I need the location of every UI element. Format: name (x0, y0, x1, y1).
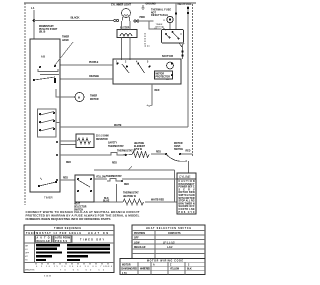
svg-text:RED: RED (112, 163, 117, 165)
svg-text:HEATING W: HEATING W (123, 195, 137, 198)
svg-text:BLK: BLK (104, 198, 109, 200)
svg-text:WHITE: WHITE (114, 125, 122, 127)
svg-text:RED: RED (66, 162, 71, 164)
svg-text:POWER BEF C: POWER BEF C (179, 187, 195, 189)
svg-text:HEAT SELECTION SWITCH: HEAT SELECTION SWITCH (146, 227, 191, 230)
svg-text:MOTOR: MOTOR (122, 264, 131, 266)
svg-text:CAUTION: CAUTION (179, 180, 195, 183)
svg-text:CYLINE: CYLINE (179, 175, 191, 179)
svg-text:CONTR LNE: CONTR LNE (179, 209, 195, 211)
svg-text:YELLOW: YELLOW (96, 177, 107, 179)
svg-text:RED: RED (186, 151, 191, 153)
svg-text:PRESS: PRESS (55, 241, 67, 243)
svg-text:TIMER SEQUENCE: TIMER SEQUENCE (54, 228, 81, 230)
svg-text:REGULAR: REGULAR (134, 246, 146, 249)
svg-text:SWITCH: SWITCH (174, 149, 183, 151)
svg-text:THERMOSTAT: THERMOSTAT (123, 192, 139, 195)
svg-text:NEUTRAL: NEUTRAL (178, 2, 192, 6)
svg-text:MOTOR: MOTOR (90, 99, 99, 101)
svg-text:RED: RED (155, 90, 160, 92)
svg-text:THERMAL FUSE: THERMAL FUSE (151, 9, 171, 12)
svg-text:M: M (78, 98, 80, 100)
svg-text:PINK: PINK (140, 17, 146, 19)
svg-text:L-1/2: L-1/2 (167, 247, 173, 249)
svg-text:TIMER: TIMER (90, 96, 97, 98)
svg-text:RED: RED (63, 178, 68, 180)
svg-text:LO: LO (25, 249, 28, 251)
svg-text:33 1-2 OHM: 33 1-2 OHM (96, 136, 109, 138)
svg-text:RED: RED (156, 152, 161, 154)
svg-text:PUSH TO START: PUSH TO START (39, 28, 58, 31)
svg-text:SHOWN OFF: SHOWN OFF (179, 206, 196, 208)
svg-text:MOTOR BRN: MOTOR BRN (179, 192, 195, 194)
svg-text:TIMER: TIMER (62, 37, 69, 39)
svg-text:RESETTABLE: RESETTABLE (151, 14, 168, 17)
svg-text:WHITE-RED: WHITE-RED (151, 200, 164, 202)
svg-text:WITH MOTOR: WITH MOTOR (179, 198, 195, 200)
svg-text:LOW: LOW (134, 242, 140, 244)
svg-text:CONTACTS: CONTACTS (168, 232, 181, 235)
svg-text:MOTOR: MOTOR (162, 54, 174, 58)
svg-text:MOTOR: MOTOR (174, 143, 183, 145)
svg-text:HAND: HAND (62, 39, 69, 42)
svg-text:MOMENTARY: MOMENTARY (39, 25, 54, 28)
svg-text:CHARGING RED: CHARGING RED (121, 268, 137, 271)
svg-text:PURPLE: PURPLE (89, 62, 99, 64)
svg-text:POSITION: POSITION (134, 233, 145, 235)
svg-text:SWITCH SHN: SWITCH SHN (179, 195, 195, 197)
svg-text:DISCONNECT: DISCONNECT (179, 184, 196, 186)
svg-text:HEAT: HEAT (74, 203, 81, 206)
svg-text:OFF: OFF (134, 238, 139, 240)
svg-text:RESISTOR: RESISTOR (96, 139, 108, 141)
svg-text:NUMBERS WHEN REQUESTING INFO O: NUMBERS WHEN REQUESTING INFO OR ORDERING… (26, 217, 111, 221)
svg-text:CYL INNER LIGHT: CYL INNER LIGHT (111, 5, 131, 7)
svg-text:SELECTOR: SELECTOR (74, 207, 87, 209)
svg-text:GROUND: GROUND (146, 4, 157, 6)
svg-text:RED: RED (124, 184, 129, 186)
svg-text:ORANGE: ORANGE (89, 75, 100, 78)
svg-text:TIMER: TIMER (44, 196, 53, 200)
svg-text:BRN TIMER N: BRN TIMER N (179, 203, 195, 205)
svg-text:THERMOSTAT: THERMOSTAT (106, 175, 122, 178)
svg-text:ELEMENT: ELEMENT (134, 146, 146, 148)
svg-text:POS CYC: POS CYC (179, 212, 195, 214)
svg-text:(BLU): (BLU) (39, 32, 45, 34)
svg-text:1M: 1M (166, 79, 169, 81)
svg-text:THERMOSTAT: THERMOSTAT (108, 145, 124, 148)
svg-text:MINUTES: MINUTES (25, 269, 35, 271)
svg-text:A B: A B (41, 56, 45, 59)
svg-text:1 73: 1 73 (122, 273, 127, 275)
svg-text:CENT.: CENT. (174, 146, 181, 148)
svg-text:L1: L1 (31, 6, 35, 10)
svg-text:WHITE RED: WHITE RED (140, 269, 150, 271)
svg-text:LF-1, L-1/2: LF-1, L-1/2 (163, 242, 175, 244)
svg-text:AUTO PERM: AUTO PERM (55, 237, 70, 240)
svg-text:SAFETY: SAFETY (108, 142, 118, 145)
svg-text:MOTOR: MOTOR (156, 73, 165, 75)
svg-text:STOP ALL RG: STOP ALL RG (179, 200, 195, 203)
svg-text:MOTOR WIRING CODE: MOTOR WIRING CODE (147, 261, 183, 263)
svg-text:YELLOW: YELLOW (170, 269, 180, 271)
svg-text:THERMOSTAT 12 PER ANGLE: THERMOSTAT 12 PER ANGLE (26, 232, 81, 235)
svg-text:HEATING: HEATING (134, 142, 144, 145)
svg-text:REGULAR: REGULAR (37, 240, 50, 243)
svg-text:3 16 33: 3 16 33 (44, 276, 52, 278)
svg-text:NOT: NOT (151, 12, 156, 14)
svg-text:BLK: BLK (187, 269, 192, 271)
svg-text:BLACK: BLACK (71, 16, 81, 20)
